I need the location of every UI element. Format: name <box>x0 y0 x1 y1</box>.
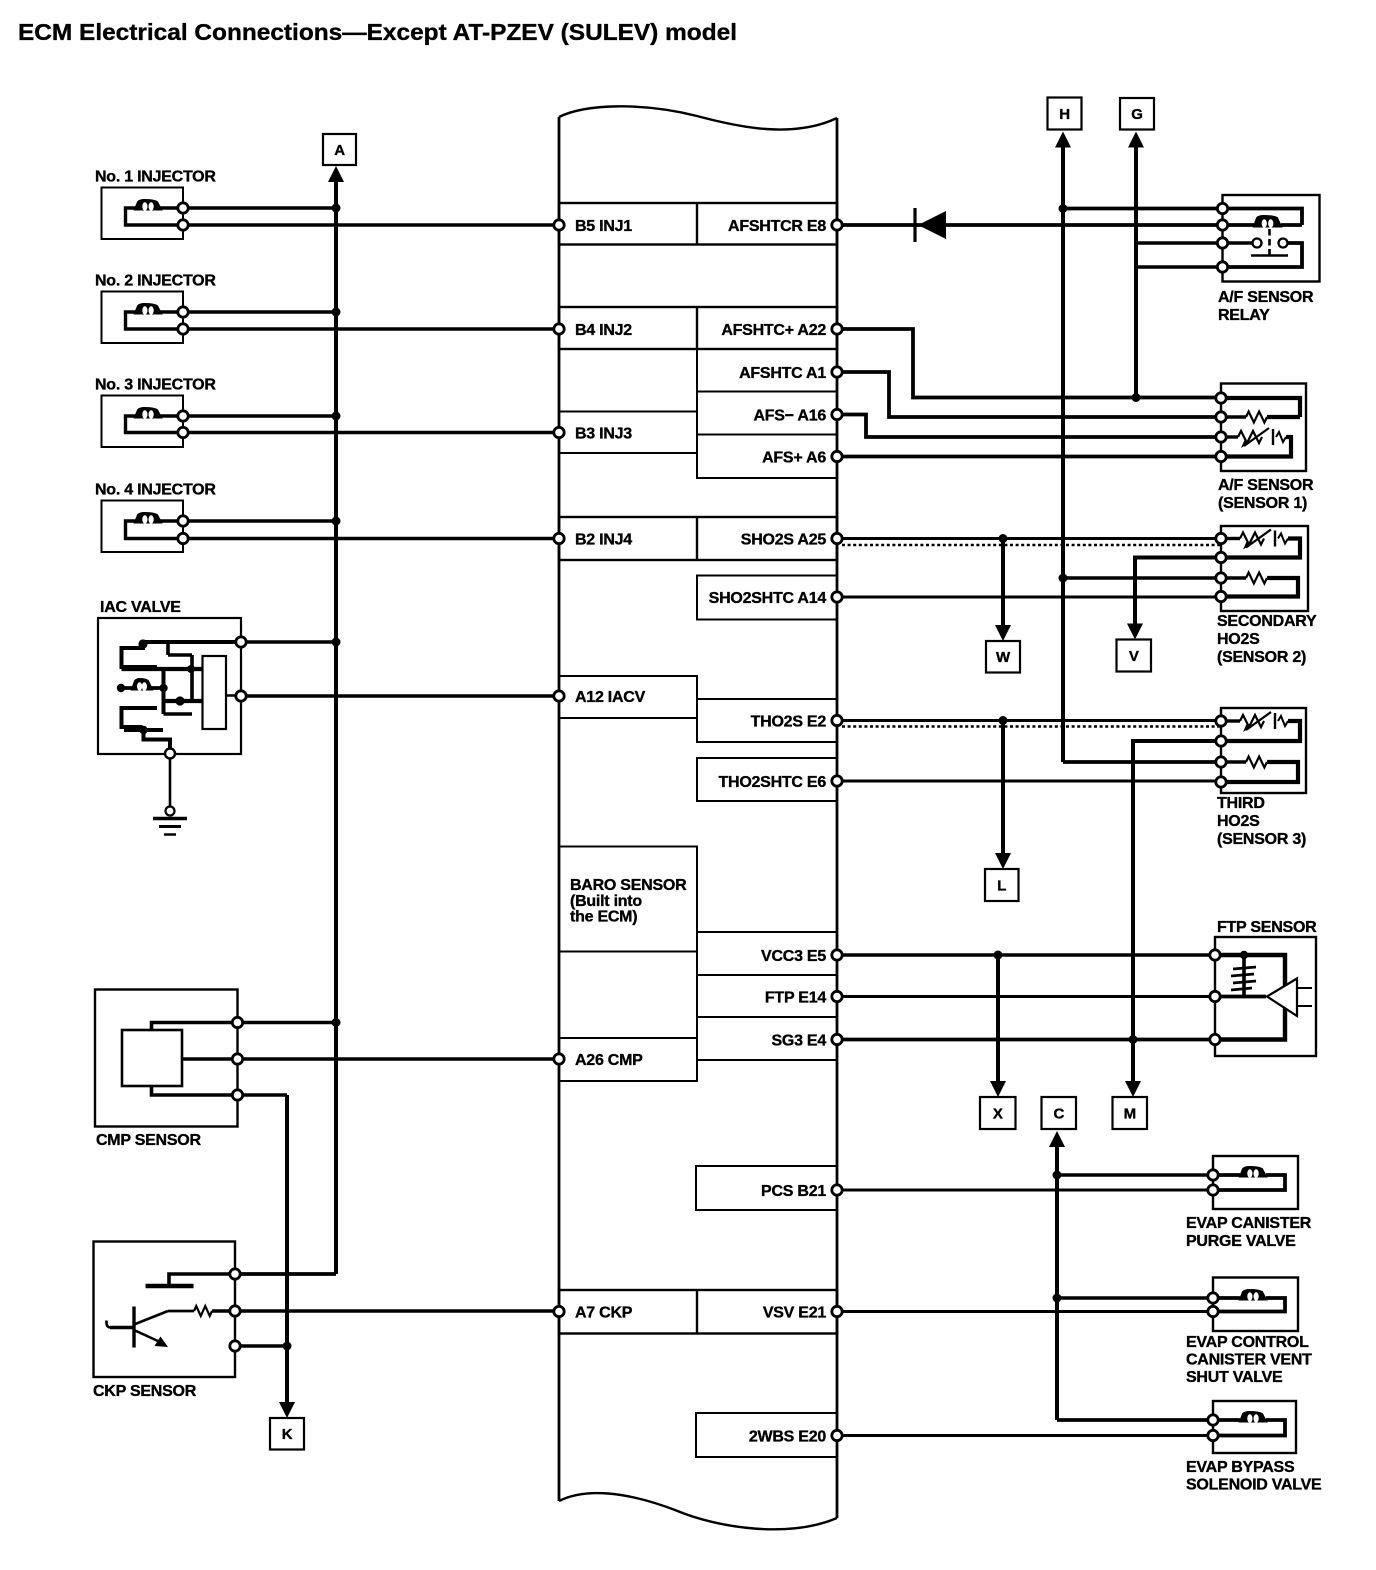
svg-text:VSV E21: VSV E21 <box>763 1304 827 1321</box>
svg-text:CMP SENSOR: CMP SENSOR <box>96 1132 201 1149</box>
svg-text:V: V <box>1129 648 1139 665</box>
svg-text:THO2SHTC E6: THO2SHTC E6 <box>719 774 827 791</box>
svg-text:A7 CKP: A7 CKP <box>575 1304 633 1321</box>
svg-text:B4 INJ2: B4 INJ2 <box>575 322 632 339</box>
svg-text:A12 IACV: A12 IACV <box>575 689 646 706</box>
svg-text:SHO2S A25: SHO2S A25 <box>741 531 827 548</box>
svg-text:CANISTER VENT: CANISTER VENT <box>1186 1352 1312 1369</box>
svg-text:THO2S E2: THO2S E2 <box>751 713 827 730</box>
svg-text:No. 2 INJECTOR: No. 2 INJECTOR <box>95 273 216 290</box>
svg-text:the ECM): the ECM) <box>570 909 637 926</box>
svg-text:No. 4 INJECTOR: No. 4 INJECTOR <box>95 482 216 499</box>
svg-text:No. 3 INJECTOR: No. 3 INJECTOR <box>95 377 216 394</box>
svg-text:SECONDARY: SECONDARY <box>1217 613 1317 630</box>
svg-text:C: C <box>1053 1105 1064 1122</box>
svg-text:L: L <box>997 877 1006 894</box>
svg-text:CKP SENSOR: CKP SENSOR <box>93 1383 197 1400</box>
svg-text:A/F SENSOR: A/F SENSOR <box>1218 477 1314 494</box>
svg-text:THIRD: THIRD <box>1217 795 1265 812</box>
svg-text:(SENSOR 3): (SENSOR 3) <box>1217 831 1306 848</box>
svg-text:B5 INJ1: B5 INJ1 <box>575 218 632 235</box>
svg-text:B3 INJ3: B3 INJ3 <box>575 425 632 442</box>
svg-text:(SENSOR 2): (SENSOR 2) <box>1217 649 1306 666</box>
svg-text:M: M <box>1124 1105 1136 1122</box>
svg-text:W: W <box>996 649 1011 666</box>
svg-text:No. 1 INJECTOR: No. 1 INJECTOR <box>95 169 216 186</box>
svg-text:G: G <box>1131 106 1142 123</box>
svg-text:EVAP CONTROL: EVAP CONTROL <box>1186 1334 1309 1351</box>
svg-text:SOLENOID VALVE: SOLENOID VALVE <box>1186 1477 1322 1494</box>
svg-text:SG3 E4: SG3 E4 <box>771 1032 826 1049</box>
svg-text:2WBS E20: 2WBS E20 <box>749 1428 826 1445</box>
svg-text:PCS B21: PCS B21 <box>761 1183 826 1200</box>
svg-text:A: A <box>334 142 345 159</box>
svg-text:EVAP BYPASS: EVAP BYPASS <box>1186 1459 1295 1476</box>
svg-text:FTP E14: FTP E14 <box>765 989 826 1006</box>
svg-text:A26 CMP: A26 CMP <box>575 1052 643 1069</box>
svg-text:AFSHTC+ A22: AFSHTC+ A22 <box>721 322 826 339</box>
svg-text:EVAP CANISTER: EVAP CANISTER <box>1186 1215 1312 1232</box>
svg-text:VCC3 E5: VCC3 E5 <box>761 948 826 965</box>
svg-text:SHO2SHTC A14: SHO2SHTC A14 <box>709 590 827 607</box>
svg-text:X: X <box>993 1105 1003 1122</box>
svg-text:K: K <box>282 1426 293 1443</box>
svg-text:HO2S: HO2S <box>1217 631 1260 648</box>
svg-text:HO2S: HO2S <box>1217 813 1260 830</box>
svg-text:A/F SENSOR: A/F SENSOR <box>1218 289 1314 306</box>
svg-text:AFSHTC A1: AFSHTC A1 <box>739 365 826 382</box>
svg-text:H: H <box>1059 106 1070 123</box>
svg-text:RELAY: RELAY <box>1218 307 1270 324</box>
svg-text:AFSHTCR E8: AFSHTCR E8 <box>728 218 826 235</box>
svg-text:AFS− A16: AFS− A16 <box>753 407 826 424</box>
svg-text:BARO SENSOR: BARO SENSOR <box>570 877 687 894</box>
svg-text:AFS+ A6: AFS+ A6 <box>762 449 826 466</box>
svg-text:IAC VALVE: IAC VALVE <box>100 599 181 616</box>
svg-text:FTP SENSOR: FTP SENSOR <box>1217 919 1317 936</box>
svg-text:PURGE VALVE: PURGE VALVE <box>1186 1233 1296 1250</box>
svg-text:(SENSOR 1): (SENSOR 1) <box>1218 495 1307 512</box>
svg-text:B2 INJ4: B2 INJ4 <box>575 531 632 548</box>
svg-text:(Built into: (Built into <box>570 893 642 910</box>
svg-text:SHUT VALVE: SHUT VALVE <box>1186 1369 1283 1386</box>
svg-text:ECM Electrical Connections—Exc: ECM Electrical Connections—Except AT-PZE… <box>18 19 737 45</box>
